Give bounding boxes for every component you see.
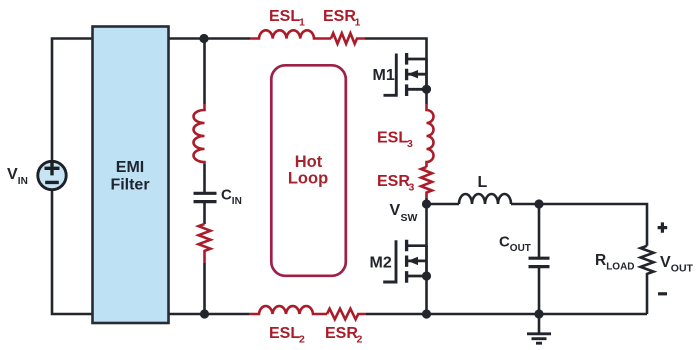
- capacitor COUT: [529, 258, 550, 266]
- svg-text:ESL: ESL: [377, 130, 408, 147]
- wire CIN to ESR: [203, 202, 206, 224]
- svg-text:OUT: OUT: [671, 263, 694, 275]
- label ESR2: [325, 325, 363, 346]
- svg-text:2: 2: [357, 334, 363, 346]
- svg-text:V: V: [390, 202, 401, 219]
- svg-text:V: V: [7, 166, 18, 183]
- node output top: [534, 199, 543, 208]
- svg-text:Loop: Loop: [288, 170, 328, 188]
- label VOUT minus: [658, 292, 667, 295]
- svg-text:Hot: Hot: [295, 153, 323, 171]
- svg-text:3: 3: [409, 182, 415, 194]
- label VSW: [390, 202, 418, 224]
- resistor ESR CIN: [199, 224, 211, 263]
- inductor L: [459, 194, 511, 204]
- svg-text:C: C: [221, 187, 232, 204]
- wire ESR3 to VSW node: [425, 198, 428, 204]
- svg-text:M2: M2: [370, 255, 392, 272]
- wire output node to right rail: [539, 204, 647, 246]
- inductor ESL3: [427, 104, 434, 167]
- label ESR1: [323, 8, 361, 29]
- svg-text:1: 1: [355, 17, 361, 29]
- svg-text:Filter: Filter: [110, 177, 149, 194]
- wire bottom rail from EMI box: [169, 313, 249, 316]
- label ESL2: [269, 325, 305, 346]
- wire ESR2 to M2 junction: [366, 313, 427, 316]
- ground: [527, 314, 551, 343]
- node bottom CIN junction: [200, 309, 209, 318]
- resistor RLOAD: [641, 246, 654, 314]
- label VIN: [7, 166, 28, 187]
- svg-text:IN: IN: [18, 176, 28, 187]
- node VSW: [422, 199, 431, 208]
- svg-text:2: 2: [299, 334, 305, 346]
- transistor M1: [384, 53, 427, 96]
- svg-text:R: R: [595, 252, 606, 269]
- svg-text:V: V: [660, 254, 671, 271]
- wire CIN tap down: [203, 39, 206, 105]
- label ESL3: [377, 130, 413, 151]
- label VOUT: [660, 254, 694, 275]
- wire COUT top lead: [538, 204, 541, 258]
- label RLOAD: [595, 252, 635, 273]
- wire COUT bottom lead: [538, 267, 541, 314]
- svg-text:LOAD: LOAD: [606, 262, 634, 273]
- resistor ESR2: [327, 309, 366, 320]
- svg-text:ESR: ESR: [377, 173, 410, 190]
- svg-text:IN: IN: [232, 196, 242, 207]
- wire top right to M1 drain: [365, 39, 427, 60]
- svg-text:ESR: ESR: [325, 325, 358, 342]
- svg-text:L: L: [478, 174, 488, 191]
- wire ESL to CIN: [203, 164, 206, 193]
- svg-text:SW: SW: [401, 212, 418, 224]
- wire ESR CIN to bottom rail: [203, 263, 206, 314]
- svg-text:OUT: OUT: [510, 243, 531, 254]
- label VOUT plus: [658, 222, 668, 232]
- label COUT: [499, 234, 531, 255]
- node ground junction: [534, 309, 543, 318]
- node M2 source/body: [422, 271, 431, 280]
- svg-text:ESR: ESR: [323, 8, 356, 25]
- inductor ESL CIN: [194, 104, 205, 164]
- svg-text:1: 1: [299, 17, 305, 29]
- wire left rail (Vin loop): [52, 39, 92, 315]
- label ESL1: [269, 8, 305, 29]
- hot loop box: [271, 65, 346, 275]
- svg-text:ESL: ESL: [269, 325, 300, 342]
- label CIN: [221, 187, 242, 208]
- svg-text:ESL: ESL: [269, 8, 300, 25]
- wire bottom rail right section: [427, 313, 648, 316]
- wire L to output node: [511, 203, 539, 206]
- resistor ESR1: [331, 33, 365, 44]
- svg-text:C: C: [499, 234, 510, 251]
- resistor ESR3: [421, 167, 432, 198]
- EMI filter box: [93, 27, 169, 324]
- transistor M2: [383, 240, 426, 283]
- EMI filter label: [110, 159, 149, 194]
- label ESR3: [377, 173, 415, 194]
- node M2 bottom rail junction: [422, 309, 431, 318]
- node M1 source/body: [422, 85, 431, 94]
- svg-text:3: 3: [407, 138, 413, 150]
- wire M2 source to bottom rail: [425, 276, 428, 314]
- wire top rail from EMI box to ESL1: [169, 37, 250, 40]
- inductor ESL1: [250, 30, 331, 38]
- svg-text:M1: M1: [373, 67, 395, 84]
- svg-text:EMI: EMI: [116, 159, 144, 176]
- inductor ESL2: [249, 306, 327, 314]
- node junction top CIN tap: [199, 34, 208, 43]
- wire M1 source down: [425, 89, 428, 104]
- hot loop label: [288, 153, 328, 188]
- capacitor CIN: [194, 193, 217, 201]
- source VIN: [38, 161, 66, 190]
- wire VSW down to M2 drain: [407, 204, 427, 246]
- wire VSW to inductor L: [427, 203, 460, 206]
